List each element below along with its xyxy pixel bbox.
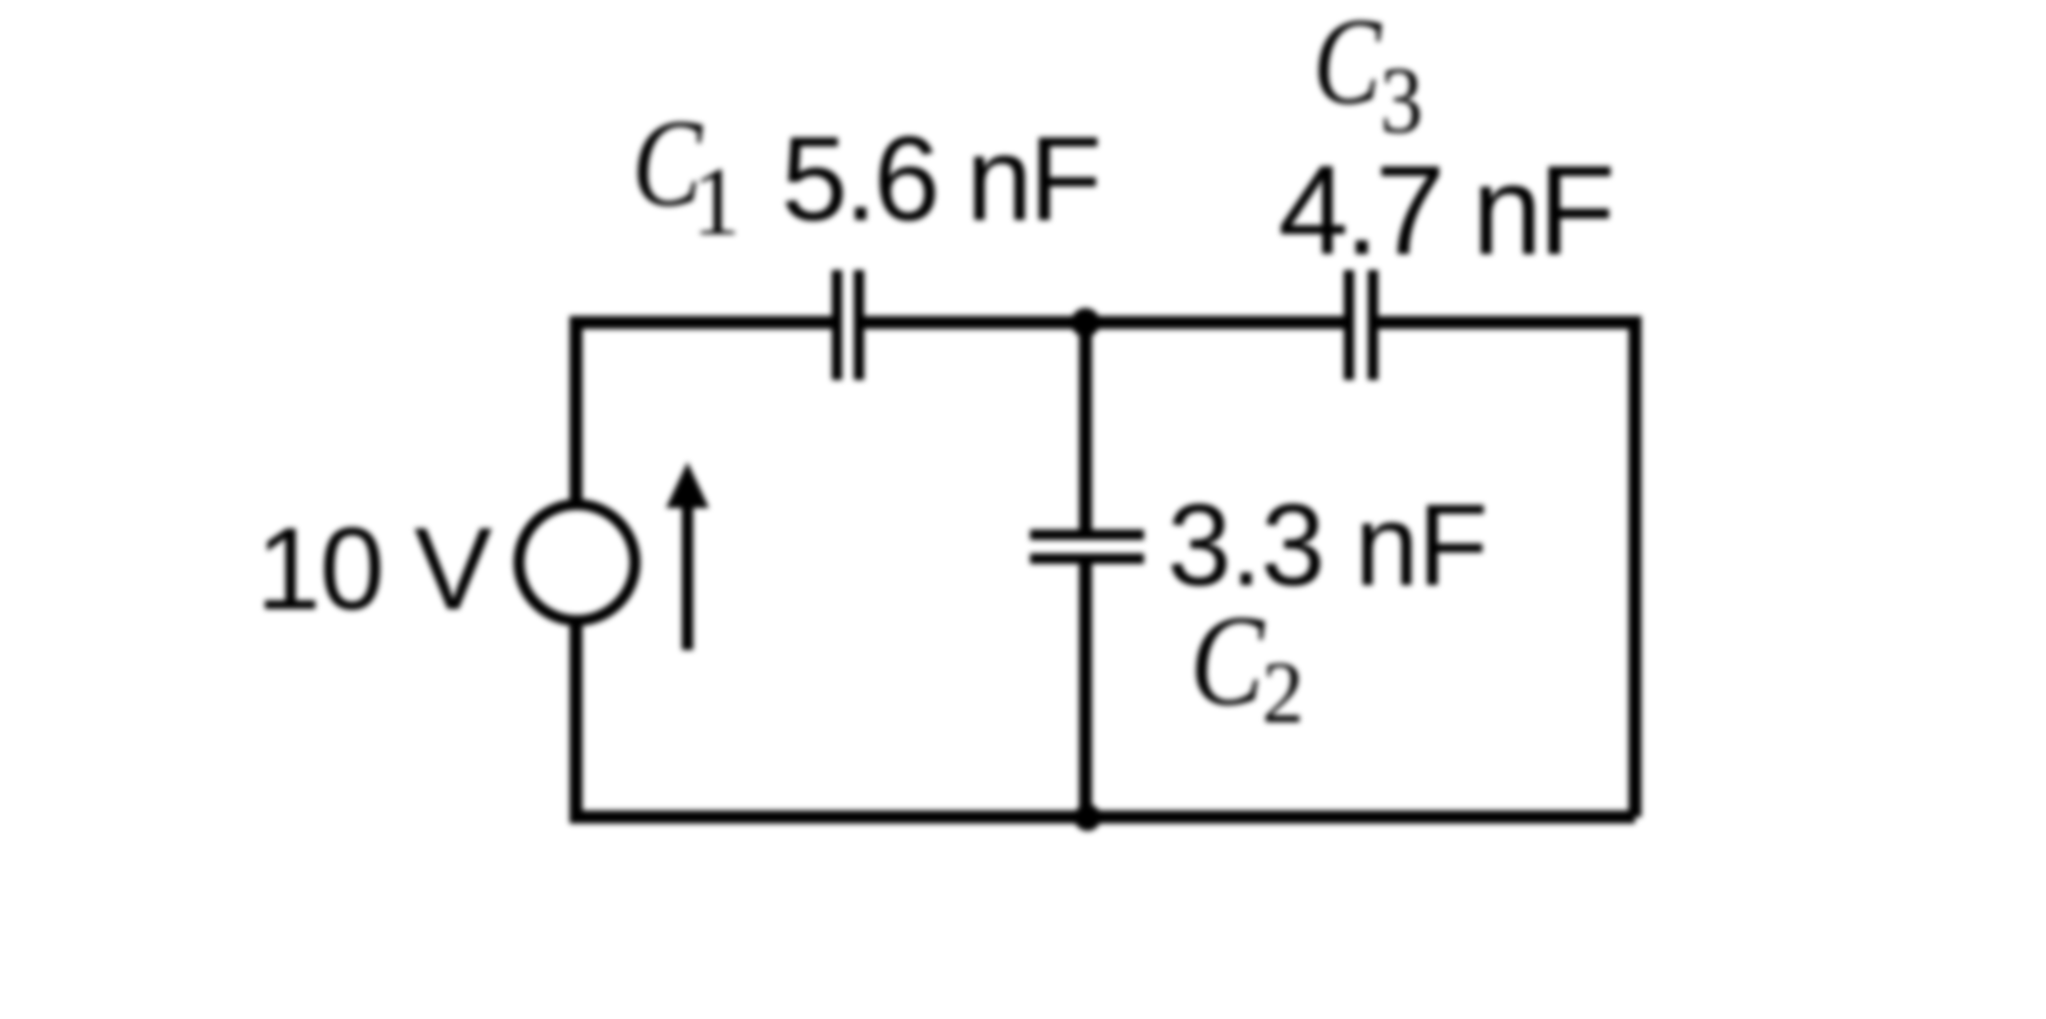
svg-text:1: 1 bbox=[692, 148, 741, 255]
svg-text:C: C bbox=[1190, 589, 1265, 733]
svg-text:3: 3 bbox=[1380, 47, 1423, 153]
svg-text:5.6 nF: 5.6 nF bbox=[781, 112, 1098, 246]
svg-text:10 V: 10 V bbox=[256, 503, 492, 634]
svg-text:4.7 nF: 4.7 nF bbox=[1278, 139, 1611, 281]
svg-text:C: C bbox=[1313, 0, 1382, 130]
svg-text:2: 2 bbox=[1262, 645, 1304, 742]
